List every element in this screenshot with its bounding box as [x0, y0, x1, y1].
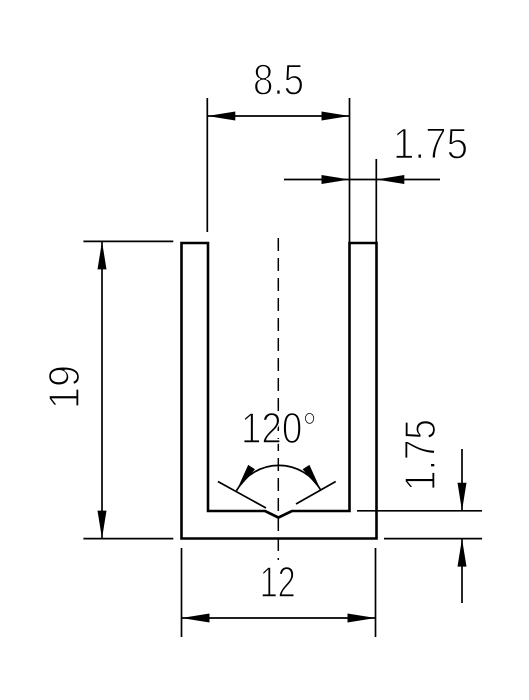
dim 1.75 top: left arrow: [322, 175, 350, 184]
dim 19: top arrow: [98, 241, 107, 269]
dim 8.5: left extension line: [206, 98, 208, 232]
angle 120: left leg: [218, 482, 266, 509]
centerline (dashed): [277, 238, 279, 560]
U-channel profile outline: [182, 243, 377, 539]
dim 19: top extension line: [83, 240, 173, 242]
dim 1.75 bottom right: upper extension line: [357, 510, 482, 512]
dim 8.5: dimension line: [207, 115, 349, 117]
svg-text:12: 12: [260, 558, 296, 607]
svg-text:1.75: 1.75: [396, 419, 445, 491]
svg-text:19: 19: [40, 365, 89, 409]
dim 19: dimension line: [101, 241, 103, 538]
svg-text:8.5: 8.5: [253, 56, 304, 105]
dim 19: bottom arrow: [98, 511, 107, 539]
dim 12: left arrow: [182, 614, 210, 623]
V-notch at inner bottom: [265, 511, 292, 518]
dim 8.5: left arrow: [207, 112, 235, 121]
angle 120: arc: [237, 465, 322, 490]
svg-text:1.75: 1.75: [393, 120, 468, 169]
svg-text:120°: 120°: [241, 404, 317, 453]
dim 1.75 top: right extension line: [375, 159, 377, 243]
dim 1.75 bottom right: lower extension line: [384, 538, 482, 540]
dim 1.75 top: dimension line: [284, 179, 440, 181]
angle 120: left arc arrow: [237, 465, 256, 491]
dim 12: left extension line: [181, 548, 183, 637]
dim 1.75 bottom right: up arrow: [458, 539, 467, 567]
dim 1.75 top: right arrow: [376, 175, 404, 184]
dim 1.75 bottom right: upper dimension line: [461, 449, 463, 511]
dim 12: dimension line: [182, 617, 376, 619]
dim 12: right extension line: [375, 548, 377, 637]
dim 8.5: right extension line: [349, 98, 351, 243]
angle 120: right arc arrow: [303, 465, 322, 491]
dim 1.75 bottom right: lower dimension line: [461, 539, 463, 603]
angle 120: right leg: [296, 482, 336, 505]
dim 19: bottom extension line: [83, 538, 173, 540]
dim 1.75 bottom right: down arrow: [458, 483, 467, 511]
dim 12: right arrow: [348, 614, 376, 623]
dim 8.5: right arrow: [322, 112, 350, 121]
